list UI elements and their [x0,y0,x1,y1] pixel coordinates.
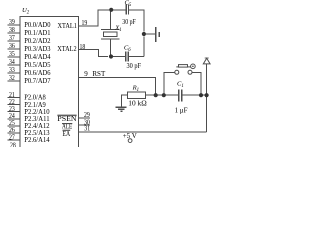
svg-text:39: 39 [9,18,15,26]
capacitor C5 plates [125,5,127,15]
svg-text:19: 19 [82,19,88,27]
wire pin22 stub [8,104,21,106]
wire C5 to right rail [129,10,144,32]
wire XTAL1 pin19 to node A [78,10,109,26]
svg-text:37: 37 [9,34,15,42]
resistor R1 body [128,92,146,99]
capacitor C1 plates [178,90,180,102]
svg-text:36: 36 [9,42,15,50]
wire XTAL2 pin18 to node C [78,50,108,57]
svg-text:RST: RST [92,70,106,78]
wire RST node horizontal [146,94,178,96]
wire bottom +5V rail (EA pin31) [78,131,206,133]
node A junction dot [109,8,113,12]
wire crystal top lead [110,10,112,30]
power rail vertical [206,64,208,132]
svg-text:P0.7/AD7: P0.7/AD7 [24,77,51,85]
node VCC junction dot [205,93,209,97]
wire pin24 stub [8,118,21,120]
wire pin36 stub [8,48,21,50]
wire pin32 stub [8,80,21,82]
wire switch left leg [164,72,175,95]
capacitor C6 plates [125,52,127,62]
ground (R1) bar 1 [115,106,126,108]
wire ALE pin30 stub [78,124,90,126]
svg-text:+5 V: +5 V [123,132,137,140]
svg-text:XTAL2: XTAL2 [57,45,77,53]
svg-text:10 kΩ: 10 kΩ [128,99,146,107]
+5V terminal circle [128,139,132,143]
svg-text:EA: EA [63,130,71,138]
switch left contact [175,70,179,74]
IC U2 body [20,16,78,147]
crystal X1 body [103,32,117,37]
node RST junction dot [154,93,158,97]
ground (R1) bar 2 [118,108,125,110]
wire pin37 stub [8,40,21,42]
svg-text:34: 34 [9,58,15,66]
svg-text:P2.6/A14: P2.6/A14 [24,136,50,144]
svg-text:P0.1/AD1: P0.1/AD1 [24,29,51,37]
svg-text:P0.5/AD5: P0.5/AD5 [24,61,51,69]
svg-text:P0.2/AD2: P0.2/AD2 [24,37,51,45]
wire switch right leg [192,72,201,95]
svg-text:P0.6/AD6: P0.6/AD6 [24,69,51,77]
power +5V arrow head [203,58,210,64]
node rail-gnd junction dot [142,32,146,36]
crystal X1 top plate [101,28,120,30]
wire C6 to right rail [129,56,144,58]
svg-text:XTAL1: XTAL1 [58,22,78,30]
svg-text:38: 38 [9,26,15,34]
svg-text:32: 32 [9,74,15,82]
svg-text:30 pF: 30 pF [122,18,136,26]
wire VCC side of C1 [182,94,206,96]
wire R1 left lead to ground [122,95,128,106]
wire pin21 stub [8,97,21,99]
svg-text:P0.0/AD0: P0.0/AD0 [24,21,51,29]
svg-text:18: 18 [80,43,86,51]
wire pin23 stub [8,111,21,113]
svg-text:P0.4/AD4: P0.4/AD4 [24,53,51,61]
wire pin34 stub [8,64,21,66]
svg-text:28: 28 [10,142,16,147]
ground (R1) bar 3 [121,110,123,112]
wire pin26 stub [8,132,21,134]
crystal X1 bottom plate [101,38,120,40]
wire right rail lower half [143,37,145,57]
switch right contact [188,70,192,74]
wire crystal bottom lead [110,39,112,57]
ground (crystal) bar 2 [158,32,160,37]
wire pin25 stub [8,125,21,127]
wire pin33 stub [8,72,21,74]
node C junction dot [109,54,113,58]
svg-text:9: 9 [84,70,88,78]
svg-text:27: 27 [9,133,15,141]
svg-text:35: 35 [9,50,15,58]
wire RST pin9 [78,78,155,96]
switch button cap [179,65,188,68]
wire pin27 stub [8,139,21,141]
node switch-left junction dot [162,93,166,97]
svg-text:1 μF: 1 μF [175,106,188,114]
wire PSEN pin29 stub [78,117,90,119]
wire pin38 stub [8,32,21,34]
switch actuator bar [176,66,191,68]
svg-text:30 pF: 30 pF [127,62,142,70]
switch circle marker [191,64,196,69]
svg-text:33: 33 [9,66,15,74]
wire pin35 stub [8,56,21,58]
wire pin39 stub [8,24,21,26]
svg-text:31: 31 [84,125,90,133]
node switch-right junction dot [199,93,203,97]
wire node C to C6 [113,56,125,58]
svg-text:P0.3/AD3: P0.3/AD3 [24,45,51,53]
ground (crystal) bar 1 [155,27,157,42]
wire node A to C5 [113,9,125,11]
ground (crystal) tick [146,33,155,35]
